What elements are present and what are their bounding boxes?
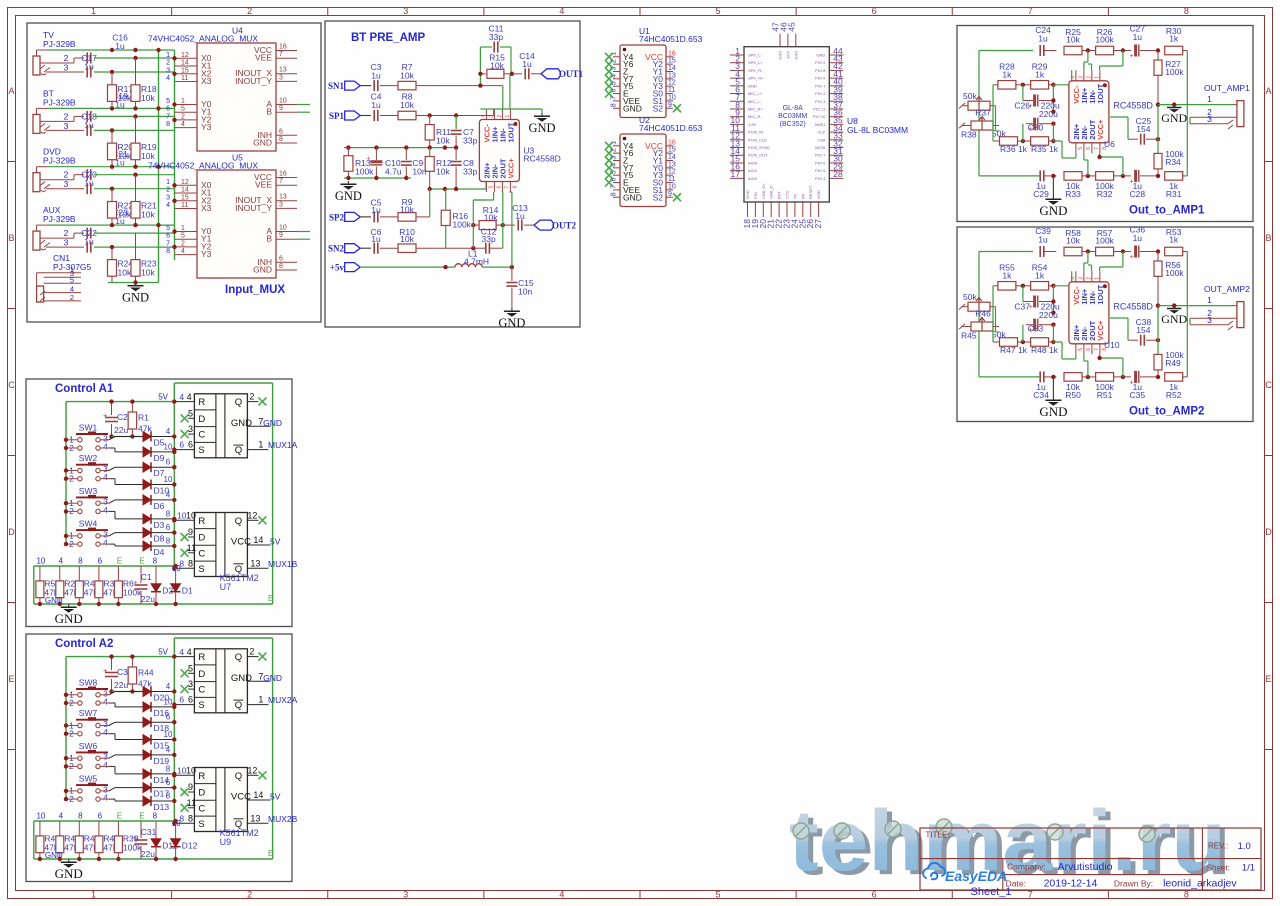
wire bbox=[1091, 64, 1093, 70]
wire bbox=[40, 182, 45, 186]
svg-text:11: 11 bbox=[187, 543, 196, 553]
pin 47 GND bbox=[779, 34, 781, 47]
svg-text:6: 6 bbox=[166, 106, 170, 113]
svg-text:11: 11 bbox=[668, 176, 675, 183]
pin GND bbox=[613, 196, 620, 198]
svg-text:10: 10 bbox=[164, 475, 173, 484]
svg-text:33p: 33p bbox=[463, 167, 477, 177]
pin VCC bbox=[666, 145, 673, 147]
svg-text:8: 8 bbox=[188, 813, 193, 823]
svg-text:Control A1: Control A1 bbox=[55, 383, 114, 395]
pin 1IN- bbox=[1091, 70, 1093, 81]
wire 2IN- bbox=[493, 192, 495, 200]
svg-text:MIC_L+: MIC_L+ bbox=[748, 91, 763, 96]
svg-text:3: 3 bbox=[279, 74, 283, 81]
logo EasyEDA bbox=[923, 863, 945, 879]
svg-text:GND: GND bbox=[263, 673, 282, 683]
pin 14 PCM_OUT bbox=[730, 154, 744, 156]
wire bbox=[1158, 104, 1187, 106]
svg-text:OUT_AMP2: OUT_AMP2 bbox=[1204, 284, 1250, 294]
pin 35 MISO bbox=[829, 123, 843, 125]
wire S bbox=[174, 567, 194, 569]
no-connect D bbox=[181, 414, 189, 422]
resistor R20 bbox=[108, 143, 117, 160]
svg-text:RESET: RESET bbox=[808, 185, 813, 199]
svg-text:E: E bbox=[8, 674, 14, 684]
svg-text:1k: 1k bbox=[1002, 69, 1012, 79]
svg-text:74VHC4052_ANALOG_MUX: 74VHC4052_ANALOG_MUX bbox=[148, 161, 258, 171]
svg-text:5: 5 bbox=[181, 106, 185, 113]
wire pin stub bbox=[44, 276, 81, 278]
svg-text:10k: 10k bbox=[1066, 236, 1080, 246]
wire pin B bbox=[276, 238, 297, 240]
wire bbox=[112, 436, 143, 438]
pin Y1 bbox=[666, 160, 673, 162]
svg-text:Sheet_1: Sheet_1 bbox=[971, 886, 1012, 898]
frame tick bbox=[171, 8, 173, 16]
svg-text:6: 6 bbox=[1086, 348, 1092, 351]
pin 42 PIO 8 bbox=[829, 69, 843, 71]
wire bbox=[992, 286, 994, 327]
svg-text:14: 14 bbox=[181, 60, 189, 67]
svg-text:2: 2 bbox=[181, 113, 185, 120]
svg-text:GND: GND bbox=[778, 51, 783, 60]
svg-text:10k: 10k bbox=[400, 205, 414, 215]
no-connect D bbox=[181, 533, 189, 541]
svg-text:PIO 1: PIO 1 bbox=[815, 83, 826, 88]
wire bbox=[1127, 318, 1129, 340]
wire pin stub bbox=[44, 292, 81, 294]
svg-text:C1: C1 bbox=[141, 572, 152, 582]
svg-text:16: 16 bbox=[279, 44, 287, 51]
wire bbox=[40, 65, 45, 69]
wire bbox=[94, 129, 175, 131]
no-connect C bbox=[181, 549, 189, 557]
svg-text:MIC_R-: MIC_R- bbox=[748, 114, 762, 119]
svg-text:1u: 1u bbox=[1038, 34, 1048, 44]
pin 37 PIO 11 bbox=[829, 108, 843, 110]
svg-text:E: E bbox=[139, 557, 144, 566]
svg-text:33p: 33p bbox=[482, 234, 496, 244]
pin 19 PIO bbox=[754, 202, 756, 217]
svg-text:C: C bbox=[198, 548, 205, 559]
svg-text:1.0: 1.0 bbox=[1238, 841, 1251, 852]
svg-text:10: 10 bbox=[279, 225, 287, 232]
wire 5V to R bbox=[174, 401, 194, 403]
wire bbox=[36, 167, 38, 173]
pin 41 PIO 0 bbox=[829, 77, 843, 79]
flip-flop K561TM2 half bbox=[194, 649, 247, 713]
svg-text:8: 8 bbox=[611, 103, 618, 107]
svg-text:1u: 1u bbox=[84, 237, 94, 247]
frame tick bbox=[8, 455, 16, 457]
pin 13 PCM_SYNC bbox=[730, 147, 744, 149]
svg-text:PCM_OUT: PCM_OUT bbox=[748, 153, 768, 158]
svg-text:C34: C34 bbox=[1033, 390, 1049, 400]
pin 2 SPK_L+ bbox=[730, 62, 744, 64]
svg-text:Y3: Y3 bbox=[201, 122, 212, 132]
svg-text:9: 9 bbox=[279, 232, 283, 239]
svg-text:8: 8 bbox=[78, 812, 83, 821]
pin Q nc bbox=[247, 519, 258, 521]
svg-text:SW2: SW2 bbox=[79, 453, 98, 463]
wire bbox=[101, 535, 109, 537]
output jack bbox=[1237, 302, 1244, 328]
svg-text:SPK_R-: SPK_R- bbox=[748, 68, 763, 73]
svg-text:6: 6 bbox=[179, 440, 184, 450]
block Control A2 border bbox=[26, 634, 292, 882]
svg-text:7: 7 bbox=[166, 113, 170, 120]
wire R bbox=[174, 519, 194, 521]
ground bbox=[1052, 377, 1054, 397]
svg-text:10k: 10k bbox=[118, 210, 132, 220]
svg-text:SW6: SW6 bbox=[79, 741, 98, 751]
pin 44 GND bbox=[829, 54, 843, 56]
wire bbox=[1189, 318, 1191, 325]
svg-text:GL-8L BC03MM: GL-8L BC03MM bbox=[847, 125, 908, 135]
wire S bbox=[174, 822, 194, 824]
svg-text:2: 2 bbox=[64, 111, 69, 121]
wire bbox=[472, 225, 474, 248]
svg-text:1u: 1u bbox=[371, 234, 381, 244]
svg-text:B: B bbox=[1265, 233, 1271, 243]
svg-text:2: 2 bbox=[166, 60, 170, 67]
flip-flop K561TM2 half bbox=[194, 513, 247, 577]
svg-text:1u: 1u bbox=[84, 178, 94, 188]
svg-text:50k: 50k bbox=[963, 91, 977, 101]
svg-text:PJ-329B: PJ-329B bbox=[43, 97, 76, 107]
pin Y7 bbox=[613, 78, 620, 80]
svg-text:12: 12 bbox=[247, 765, 257, 775]
svg-text:1: 1 bbox=[181, 98, 185, 105]
pin S0 bbox=[666, 182, 673, 184]
bluetooth module U8 GL-8A BC03MM bbox=[744, 47, 829, 202]
svg-text:E: E bbox=[268, 594, 273, 603]
svg-text:Drawn By:: Drawn By: bbox=[1114, 878, 1153, 888]
pin VCC- bbox=[1075, 271, 1077, 282]
svg-text:MOSI: MOSI bbox=[815, 145, 825, 150]
svg-text:D: D bbox=[8, 527, 15, 537]
pin 43 PIO 9 bbox=[829, 62, 843, 64]
flip-flop K561TM2 half bbox=[194, 394, 247, 458]
svg-text:D3: D3 bbox=[154, 520, 165, 530]
svg-text:10k: 10k bbox=[141, 210, 155, 220]
diode D17 bbox=[143, 783, 151, 793]
pin Z bbox=[613, 160, 620, 162]
frame tick bbox=[483, 8, 485, 16]
wire bbox=[1022, 325, 1024, 342]
svg-text:4: 4 bbox=[181, 248, 185, 255]
svg-text:1u: 1u bbox=[115, 41, 125, 51]
svg-text:5V: 5V bbox=[270, 537, 281, 547]
wire bbox=[94, 246, 175, 248]
svg-text:C35: C35 bbox=[1130, 390, 1146, 400]
svg-text:8: 8 bbox=[166, 764, 171, 773]
svg-text:5: 5 bbox=[488, 186, 494, 189]
pin 1OUT bbox=[1099, 70, 1101, 81]
svg-text:GND: GND bbox=[253, 138, 272, 148]
svg-text:13: 13 bbox=[668, 161, 676, 168]
pin 34 CLK bbox=[829, 131, 843, 133]
svg-text:3: 3 bbox=[166, 194, 170, 201]
svg-text:E: E bbox=[117, 557, 122, 566]
svg-text:MIC_R+: MIC_R+ bbox=[748, 106, 763, 111]
svg-text:PIO 5: PIO 5 bbox=[815, 168, 826, 173]
svg-text:1: 1 bbox=[258, 695, 263, 705]
pin 2IN+ bbox=[1075, 344, 1077, 355]
pin 30 PIO 6 bbox=[829, 162, 843, 164]
svg-text:C: C bbox=[198, 685, 205, 696]
pin Y0 bbox=[666, 78, 673, 80]
svg-text:6: 6 bbox=[179, 695, 184, 705]
pin 5 GND bbox=[730, 85, 744, 87]
svg-text:D: D bbox=[198, 533, 205, 544]
svg-text:+: + bbox=[133, 578, 138, 587]
wire 5V to R bbox=[174, 656, 194, 658]
svg-text:R45: R45 bbox=[961, 331, 977, 341]
pin Y1 bbox=[666, 71, 673, 73]
wire pin VEE bbox=[276, 184, 297, 186]
svg-text:1u: 1u bbox=[522, 59, 532, 69]
resistor R5 47k bbox=[36, 581, 44, 598]
pin 20 USB_D+ bbox=[762, 202, 764, 217]
svg-text:D1: D1 bbox=[182, 586, 193, 596]
pin 31 PIO 7 bbox=[829, 154, 843, 156]
capacitor C18 bbox=[86, 111, 88, 122]
svg-text:1u: 1u bbox=[1038, 235, 1048, 245]
wire VCC+ bbox=[511, 192, 513, 267]
svg-text:154: 154 bbox=[1136, 124, 1150, 134]
ground bbox=[347, 181, 349, 184]
svg-text:10n: 10n bbox=[518, 287, 532, 297]
svg-text:MUX1B: MUX1B bbox=[268, 559, 298, 569]
svg-text:USB_D+: USB_D+ bbox=[761, 183, 766, 199]
pin VEE bbox=[613, 100, 620, 102]
ground bbox=[511, 308, 513, 311]
pin GND bbox=[613, 107, 620, 109]
svg-text:1: 1 bbox=[1094, 76, 1100, 79]
pin 24 TX bbox=[794, 202, 796, 217]
svg-text:11: 11 bbox=[668, 87, 675, 94]
svg-text:2: 2 bbox=[64, 228, 69, 238]
svg-text:MISO: MISO bbox=[815, 122, 825, 127]
wire 2IN+ route bbox=[1053, 341, 1062, 343]
svg-text:22u: 22u bbox=[114, 425, 128, 435]
pin Y5 bbox=[613, 174, 620, 176]
wire rail bbox=[344, 177, 411, 179]
svg-text:CS8: CS8 bbox=[818, 137, 827, 142]
svg-text:GND: GND bbox=[623, 103, 642, 113]
svg-text:R34: R34 bbox=[1165, 157, 1181, 167]
svg-text:1OUT: 1OUT bbox=[1096, 284, 1105, 304]
svg-text:74HC4051D.653: 74HC4051D.653 bbox=[639, 34, 703, 44]
svg-text:1OUT: 1OUT bbox=[506, 122, 515, 142]
svg-text:6: 6 bbox=[166, 458, 171, 467]
wire bbox=[1187, 305, 1233, 307]
svg-text:C29: C29 bbox=[1033, 189, 1049, 199]
svg-text:GND: GND bbox=[231, 418, 252, 429]
wire bbox=[101, 733, 109, 735]
wire bbox=[1053, 84, 1071, 86]
ground bbox=[68, 859, 70, 862]
wire bbox=[40, 179, 74, 181]
svg-text:1k: 1k bbox=[1169, 34, 1179, 44]
pin 4 SPK_R+ bbox=[730, 77, 744, 79]
svg-text:10k: 10k bbox=[141, 93, 155, 103]
svg-text:PIO 3: PIO 3 bbox=[815, 99, 826, 104]
svg-text:GND: GND bbox=[263, 418, 282, 428]
svg-text:8: 8 bbox=[188, 558, 193, 568]
svg-text:B: B bbox=[266, 234, 272, 244]
wire bbox=[101, 702, 109, 704]
svg-text:PCM_CLK: PCM_CLK bbox=[748, 137, 767, 142]
pin 11 PCM_IN bbox=[730, 131, 744, 133]
svg-text:PCM_IN: PCM_IN bbox=[748, 130, 763, 135]
svg-text:220u: 220u bbox=[1039, 109, 1058, 119]
wire bbox=[66, 725, 77, 727]
svg-text:22u: 22u bbox=[141, 849, 155, 859]
svg-text:2: 2 bbox=[166, 187, 170, 194]
svg-text:4: 4 bbox=[179, 392, 184, 402]
svg-text:2: 2 bbox=[497, 115, 503, 118]
wire pin stub bbox=[175, 81, 198, 83]
wire bbox=[135, 247, 137, 260]
wire bbox=[66, 470, 77, 472]
pin 29 PIO 5 bbox=[829, 170, 843, 172]
wire net bbox=[66, 656, 174, 658]
svg-text:8: 8 bbox=[153, 557, 158, 566]
svg-text:5: 5 bbox=[188, 408, 193, 418]
svg-text:1u: 1u bbox=[1133, 233, 1143, 243]
svg-text:4: 4 bbox=[166, 745, 171, 754]
svg-text:22u: 22u bbox=[114, 680, 128, 690]
svg-text:Control A2: Control A2 bbox=[55, 638, 113, 650]
svg-text:10k: 10k bbox=[400, 100, 414, 110]
svg-text:SPK_R+: SPK_R+ bbox=[748, 76, 764, 81]
pin VCC bbox=[666, 56, 673, 58]
pin Qbar MUX1A bbox=[247, 704, 268, 706]
svg-text:7: 7 bbox=[504, 186, 510, 189]
svg-text:50k: 50k bbox=[963, 292, 977, 302]
svg-text:10: 10 bbox=[186, 510, 196, 520]
svg-text:GND: GND bbox=[45, 596, 63, 605]
capacitor C23 1u bbox=[86, 242, 88, 253]
svg-text:OUT1: OUT1 bbox=[559, 69, 584, 79]
wire bbox=[486, 108, 542, 110]
wire bbox=[992, 327, 994, 343]
pin 7 MIC_L- bbox=[730, 100, 744, 102]
svg-text:10: 10 bbox=[668, 183, 676, 190]
wire pin GND bbox=[276, 269, 297, 271]
wire net bbox=[66, 401, 174, 403]
resistor R19 bbox=[131, 143, 140, 160]
svg-text:5: 5 bbox=[716, 890, 721, 900]
pin S1 bbox=[666, 100, 673, 102]
wire pin INOUT_X bbox=[276, 73, 297, 75]
pin 10 1.8V bbox=[730, 123, 744, 125]
svg-text:+: + bbox=[366, 155, 370, 162]
resistor R56 100k bbox=[1157, 252, 1159, 262]
svg-text:PIO: PIO bbox=[753, 192, 758, 199]
resistor R12 bbox=[425, 157, 434, 172]
svg-text:12: 12 bbox=[668, 80, 676, 87]
capacitor C15 10n bbox=[511, 267, 513, 281]
svg-text:PIO 11: PIO 11 bbox=[813, 106, 826, 111]
svg-text:10k: 10k bbox=[400, 234, 414, 244]
frame tick bbox=[8, 161, 16, 163]
svg-text:1u: 1u bbox=[1133, 32, 1143, 42]
svg-text:GND: GND bbox=[793, 51, 798, 60]
svg-text:4: 4 bbox=[103, 697, 108, 707]
svg-text:D: D bbox=[198, 788, 205, 799]
wire pin stub bbox=[175, 192, 198, 194]
svg-text:12: 12 bbox=[247, 510, 257, 520]
pin 2IN- bbox=[493, 182, 495, 193]
wire bus bbox=[174, 50, 176, 260]
svg-text:Q: Q bbox=[235, 445, 242, 456]
diode D15 bbox=[143, 735, 151, 745]
wire bbox=[36, 108, 38, 114]
wire bbox=[445, 226, 447, 249]
svg-text:+: + bbox=[1029, 327, 1033, 334]
svg-text:7: 7 bbox=[279, 178, 283, 185]
pin 28 PIO 4 bbox=[829, 177, 843, 179]
wire bbox=[40, 240, 45, 244]
svg-text:R46: R46 bbox=[975, 309, 991, 319]
wire bbox=[101, 694, 109, 696]
svg-text:GND: GND bbox=[1039, 404, 1067, 419]
block Control A1 border bbox=[26, 379, 292, 627]
svg-text:C: C bbox=[8, 380, 15, 390]
wire bbox=[995, 106, 997, 131]
svg-text:SP2: SP2 bbox=[329, 212, 345, 222]
svg-text:3: 3 bbox=[188, 424, 193, 434]
net flag OUT2 bbox=[534, 220, 554, 230]
svg-text:RC4558D: RC4558D bbox=[1113, 302, 1153, 312]
svg-text:11: 11 bbox=[181, 202, 188, 209]
svg-text:1u: 1u bbox=[515, 211, 525, 221]
pin VCC- bbox=[1075, 70, 1077, 81]
svg-text:+: + bbox=[1130, 379, 1134, 386]
frame tick bbox=[795, 8, 797, 16]
diode D12 bbox=[175, 821, 177, 839]
svg-text:4: 4 bbox=[103, 760, 108, 770]
svg-text:5: 5 bbox=[70, 275, 74, 284]
svg-text:OUT_AMP1: OUT_AMP1 bbox=[1204, 83, 1250, 93]
diode D6 bbox=[143, 495, 151, 505]
svg-text:VCC+: VCC+ bbox=[1096, 119, 1105, 140]
svg-text:3: 3 bbox=[1078, 76, 1084, 79]
pin S2 bbox=[666, 196, 673, 198]
svg-text:1k: 1k bbox=[1035, 270, 1045, 280]
svg-text:7: 7 bbox=[279, 51, 283, 58]
svg-text:TITLE:: TITLE: bbox=[926, 831, 950, 840]
pin 1OUT bbox=[509, 109, 511, 120]
svg-text:GND: GND bbox=[528, 121, 555, 135]
svg-text:S: S bbox=[198, 700, 204, 711]
svg-text:5: 5 bbox=[716, 6, 721, 16]
resistor R22 bbox=[108, 202, 117, 219]
svg-text:28: 28 bbox=[833, 169, 843, 179]
svg-text:8: 8 bbox=[153, 812, 158, 821]
wire bbox=[101, 790, 109, 792]
wire bbox=[1022, 286, 1024, 302]
svg-text:D9: D9 bbox=[154, 453, 165, 463]
wire pin stub bbox=[175, 200, 198, 202]
svg-text:10: 10 bbox=[36, 812, 45, 821]
resistor R27 100k bbox=[1157, 51, 1159, 61]
svg-text:D6: D6 bbox=[154, 501, 165, 511]
